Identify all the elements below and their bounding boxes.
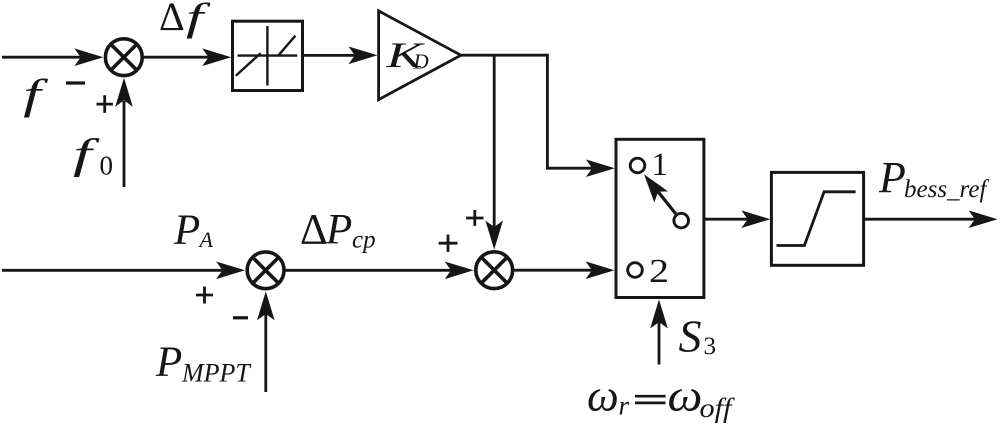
wire: S1 output to deadband block xyxy=(142,48,231,66)
summing junction S2 (PA - PMPPT) xyxy=(247,252,284,289)
svg-text:S: S xyxy=(679,311,702,362)
switch common pole contact xyxy=(674,213,689,228)
svg-text:2: 2 xyxy=(649,253,669,290)
minus sign at S1 (f input polarity) xyxy=(66,81,85,84)
label S3 (switch control signal) xyxy=(679,311,717,362)
svg-text:Δ: Δ xyxy=(300,207,328,254)
svg-text:0: 0 xyxy=(100,151,114,181)
label PMPPT (MPPT power) xyxy=(155,339,251,388)
plus sign at S3 (droop branch polarity) xyxy=(466,210,483,226)
pin label 2 xyxy=(649,253,669,290)
svg-text:P: P xyxy=(155,339,182,386)
summing junction S3 (droop + Pcp) xyxy=(476,252,513,289)
wire: PA input into summing junction S2 xyxy=(2,262,245,280)
wire: f input into summing junction S1 xyxy=(2,48,103,66)
wire: S3 output to switch contact 2 xyxy=(513,261,615,279)
svg-text:f: f xyxy=(73,131,101,177)
wire: saturation output Pbess_ref xyxy=(864,210,998,228)
svg-text:bess_ref: bess_ref xyxy=(904,176,989,203)
summing junction S1 (f0 - f) xyxy=(105,39,142,76)
switch block S3 selector (box) xyxy=(616,139,704,297)
svg-text:P: P xyxy=(173,207,200,254)
label f0 (nominal frequency) xyxy=(73,131,113,180)
label Pbess_ref (BESS power reference) xyxy=(878,153,989,203)
svg-text:r: r xyxy=(619,391,630,421)
wire: f0 input up into S1 xyxy=(115,78,133,187)
switch contact 1 xyxy=(630,158,645,173)
label switching condition omega_r = omega_off xyxy=(587,371,736,424)
wire: KD output horizontal run to corner xyxy=(460,54,548,57)
wire: branch down from node into summing junction S3 xyxy=(485,55,503,249)
svg-text:f: f xyxy=(23,71,49,118)
switch arm (pole to contact 1, arrow) xyxy=(644,174,676,214)
svg-text:1: 1 xyxy=(652,147,669,183)
label f (input frequency) xyxy=(23,71,49,118)
wire: S2 output to summing junction S3 xyxy=(284,262,474,280)
plus sign at S3 (Pcp branch polarity) xyxy=(439,235,458,252)
wire: switch output to saturation block xyxy=(704,210,770,228)
svg-text:3: 3 xyxy=(704,333,717,360)
svg-text:Δ: Δ xyxy=(159,0,185,39)
plus sign at S1 (f0 input polarity) xyxy=(97,95,113,113)
wire: deadband output to gain KD xyxy=(303,47,378,65)
svg-text:f: f xyxy=(186,0,211,39)
svg-text:P: P xyxy=(325,207,352,254)
svg-text:A: A xyxy=(198,227,214,252)
svg-text:off: off xyxy=(700,393,736,423)
gain block KD (droop gain triangle) xyxy=(379,11,461,100)
svg-text:P: P xyxy=(878,153,906,202)
deadband block (dead zone nonlinearity) xyxy=(233,21,303,90)
svg-text:D: D xyxy=(413,50,429,74)
svg-text:ω: ω xyxy=(668,371,703,420)
label delta-f (frequency deviation) xyxy=(159,0,211,39)
switch contact 2 xyxy=(628,263,643,278)
svg-text:cp: cp xyxy=(352,227,376,254)
svg-text:MPPT: MPPT xyxy=(181,359,251,388)
wire: PMPPT input up into S2 xyxy=(257,291,275,392)
wire: corner run to switch contact 1 xyxy=(547,54,614,177)
label PA (available power) xyxy=(173,207,214,254)
svg-text:ω: ω xyxy=(587,371,619,421)
minus sign at S2 (PMPPT polarity) xyxy=(233,316,248,319)
label delta-Pcp (curtailed power delta) xyxy=(300,207,376,254)
saturation block (limiter) xyxy=(771,172,863,265)
plus sign at S2 (PA polarity) xyxy=(196,287,213,304)
wire: S3 select signal up into switch xyxy=(650,300,668,365)
